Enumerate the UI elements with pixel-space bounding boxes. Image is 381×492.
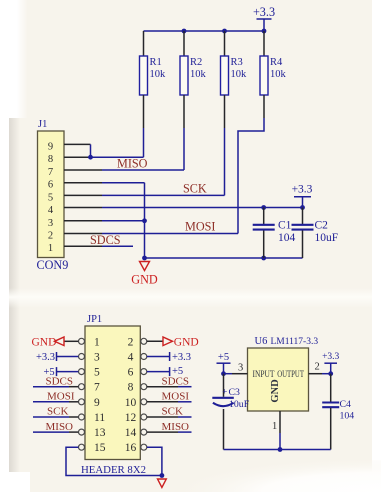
wire SDCS row — [102, 245, 133, 247]
J1 pin 2 stub — [64, 233, 102, 235]
wire JP1 pin9 left MOSI — [33, 401, 69, 403]
capacitor C3 (polarized) — [212, 374, 249, 450]
junction pin9/pin8 — [88, 155, 93, 160]
JP1 pin circles right — [141, 338, 147, 344]
J1 pin 9 stub — [64, 143, 91, 145]
svg-text:SDCS: SDCS — [46, 376, 74, 388]
wire JP1 pin10 right MOSI — [147, 401, 178, 403]
capacitor C2 — [292, 208, 339, 259]
connector J1 — [37, 119, 69, 272]
svg-text:1: 1 — [272, 421, 277, 432]
resistor R4 — [260, 31, 287, 118]
ground GND JP1 — [158, 479, 167, 488]
port GND left arrow — [55, 337, 65, 346]
svg-text:10: 10 — [125, 397, 137, 409]
wire JP1 pin15 to bottom rail — [66, 447, 162, 475]
wire JP1 pin6 right — [147, 371, 170, 373]
U6 pin 3 — [232, 373, 248, 375]
svg-text:13: 13 — [94, 427, 106, 439]
svg-text:SCK: SCK — [47, 406, 68, 418]
wire +3.3 top rail — [144, 30, 265, 32]
wire JP1 pin5 left — [57, 371, 79, 373]
wire JP1 pin8 right SDCS — [147, 386, 178, 388]
svg-text:JP1: JP1 — [87, 314, 102, 325]
wire JP1 pin2 right — [147, 340, 163, 342]
svg-text:10k: 10k — [231, 69, 248, 80]
junction +5/pin3/C3 — [221, 371, 226, 376]
junction pin3/GND — [142, 218, 147, 223]
wire JP1 pin13 left MISO — [33, 431, 69, 433]
svg-text:C4: C4 — [340, 399, 352, 410]
wire JP1 pin1 left — [64, 340, 78, 342]
ground GND top section — [131, 262, 158, 287]
power +3.3 top — [253, 5, 275, 31]
junction C1 top — [261, 205, 266, 210]
svg-text:10k: 10k — [190, 69, 207, 80]
svg-text:10uF: 10uF — [229, 399, 250, 410]
wire R4 bottom jog to MOSI row — [238, 118, 264, 234]
J1 pin 8 stub — [64, 156, 102, 158]
svg-text:J1: J1 — [38, 119, 47, 130]
svg-text:R3: R3 — [231, 57, 243, 68]
svg-text:LM1117-3.3: LM1117-3.3 — [271, 337, 319, 347]
wire JP1 pin7 left SDCS — [33, 386, 69, 388]
svg-text:U6: U6 — [255, 336, 268, 347]
wire pin3 to +5 node — [224, 373, 233, 375]
svg-text:C1: C1 — [278, 220, 292, 232]
wire U6 bottom rail — [224, 449, 331, 451]
wire JP1 pin16 to bottom rail — [147, 447, 162, 475]
J1 pin 6 stub — [64, 182, 102, 184]
junction JP1 ground rail — [160, 473, 165, 478]
junction +3.3/pin2/C4 — [328, 371, 333, 376]
junction GND vertical / bottom row — [142, 256, 147, 261]
svg-text:4: 4 — [128, 352, 134, 364]
svg-text:+5: +5 — [218, 352, 229, 363]
wire R2 bottom to row — [183, 128, 185, 170]
junction +3.3/C2 top — [300, 205, 305, 210]
svg-text:MISO: MISO — [46, 421, 74, 433]
junction C1 bottom — [261, 256, 266, 261]
svg-text:4: 4 — [48, 205, 54, 216]
junction U6 GND/rail — [278, 447, 283, 452]
JP1 pin circles left — [79, 338, 85, 344]
svg-text:16: 16 — [125, 442, 137, 454]
svg-text:+3.3: +3.3 — [36, 352, 55, 363]
resistor R3 — [221, 31, 248, 128]
svg-text:2: 2 — [315, 362, 320, 373]
regulator U6 — [248, 336, 319, 411]
power bar +5 left — [56, 367, 58, 376]
svg-text:CON9: CON9 — [37, 258, 69, 272]
wire JP1 pin14 right MISO — [147, 431, 178, 433]
svg-text:R4: R4 — [270, 57, 283, 68]
svg-text:SDCS: SDCS — [90, 233, 121, 247]
wire pin7 row to R2 — [102, 169, 184, 171]
svg-text:SCK: SCK — [162, 406, 183, 418]
wire pin2 to +3.3 node — [322, 373, 331, 375]
wire JP1 pin11 left SCK — [33, 416, 69, 418]
svg-text:2: 2 — [128, 336, 134, 348]
svg-text:C2: C2 — [315, 220, 329, 232]
power bar +3.3 left — [56, 352, 58, 361]
svg-text:HEADER 8X2: HEADER 8X2 — [81, 464, 146, 476]
svg-text:MOSI: MOSI — [185, 220, 215, 234]
J1 pin 7 stub — [64, 169, 102, 171]
svg-text:SDCS: SDCS — [162, 376, 190, 388]
power bar +3.3 right — [169, 352, 171, 361]
power +3.3 right — [322, 352, 339, 374]
svg-text:+3.3: +3.3 — [292, 184, 313, 196]
right white margin band — [372, 0, 381, 492]
svg-text:5: 5 — [48, 192, 53, 203]
J1 pin 4 stub — [64, 207, 102, 209]
resistor R1 — [140, 31, 167, 128]
wire MOSI row to R4 branch — [102, 233, 238, 235]
svg-text:7: 7 — [48, 167, 53, 178]
wire JP1 pin3 left — [57, 356, 79, 358]
svg-text:GND: GND — [131, 273, 158, 287]
svg-text:OUTPUT: OUTPUT — [277, 369, 304, 379]
svg-text:MISO: MISO — [117, 157, 148, 171]
svg-text:GND: GND — [270, 379, 281, 403]
svg-text:3: 3 — [238, 363, 243, 374]
svg-text:10k: 10k — [150, 69, 167, 80]
svg-text:+3.3: +3.3 — [172, 352, 191, 363]
svg-text:+3.3: +3.3 — [253, 5, 275, 19]
U6 pin 2 — [309, 373, 323, 375]
svg-text:6: 6 — [128, 367, 134, 379]
svg-text:R1: R1 — [150, 57, 162, 68]
svg-text:+: + — [222, 387, 227, 397]
wire pin6 to GND vertical — [102, 182, 145, 184]
junction R3 top — [222, 29, 227, 34]
svg-text:1: 1 — [48, 243, 53, 254]
bottom-left white corner — [0, 472, 30, 492]
svg-text:R2: R2 — [190, 57, 202, 68]
svg-text:104: 104 — [278, 232, 296, 244]
wire MISO row — [88, 156, 144, 158]
svg-text:5: 5 — [94, 367, 100, 379]
svg-text:C3: C3 — [229, 387, 241, 398]
wire pin3 to GND vertical — [102, 220, 145, 222]
svg-text:MOSI: MOSI — [47, 391, 75, 403]
svg-text:14: 14 — [125, 427, 137, 439]
svg-text:104: 104 — [340, 411, 355, 422]
svg-text:15: 15 — [94, 442, 106, 454]
svg-text:12: 12 — [125, 412, 137, 424]
wire GND bottom row to caps — [145, 257, 303, 259]
capacitor C4 — [322, 374, 354, 450]
svg-text:8: 8 — [48, 154, 53, 165]
wire R3 bottom to SCK row — [224, 128, 226, 195]
U6 pin 1 GND — [279, 411, 281, 433]
wire R1 bottom to MISO row — [143, 128, 145, 157]
svg-text:10uF: 10uF — [315, 232, 339, 244]
junction R2 top — [182, 29, 187, 34]
J1 pin 3 stub — [64, 220, 102, 222]
svg-text:6: 6 — [48, 180, 53, 191]
left white margin band — [0, 0, 9, 492]
svg-text:7: 7 — [94, 382, 100, 394]
svg-text:9: 9 — [48, 141, 53, 152]
svg-text:INPUT: INPUT — [253, 369, 275, 379]
wire GND vertical — [144, 183, 146, 258]
svg-text:9: 9 — [94, 397, 100, 409]
J1 pin 1 stub — [64, 245, 102, 247]
svg-text:3: 3 — [48, 218, 53, 229]
svg-text:MISO: MISO — [162, 421, 190, 433]
svg-text:MOSI: MOSI — [162, 391, 190, 403]
svg-text:11: 11 — [94, 412, 105, 424]
wire JP1 pin4 right — [147, 356, 170, 358]
junction R4 top — [262, 29, 267, 34]
power +5 — [217, 352, 231, 374]
svg-text:+3.3: +3.3 — [322, 352, 339, 362]
svg-text:3: 3 — [94, 352, 100, 364]
power bar +5 right — [169, 367, 171, 376]
connector JP1 — [81, 314, 146, 476]
svg-text:GND: GND — [32, 337, 57, 349]
svg-text:1: 1 — [94, 336, 100, 348]
svg-text:8: 8 — [128, 382, 134, 394]
wire pin9 down to pin8 row — [90, 144, 92, 157]
svg-text:2: 2 — [48, 231, 53, 242]
J1 pin 5 stub — [64, 194, 102, 196]
svg-text:10k: 10k — [270, 69, 287, 80]
resistor R2 — [180, 31, 207, 128]
wire SCK row to R3 — [102, 194, 225, 196]
wire JP1 pin12 right SCK — [147, 416, 178, 418]
wire GND pin to rail — [279, 433, 281, 450]
port GND right arrow — [163, 337, 173, 346]
capacitor C1 — [253, 208, 296, 259]
wire +3.3 row — [102, 207, 303, 209]
svg-text:GND: GND — [174, 337, 199, 349]
power +3.3 mid — [292, 184, 313, 208]
svg-text:SCK: SCK — [183, 182, 207, 196]
